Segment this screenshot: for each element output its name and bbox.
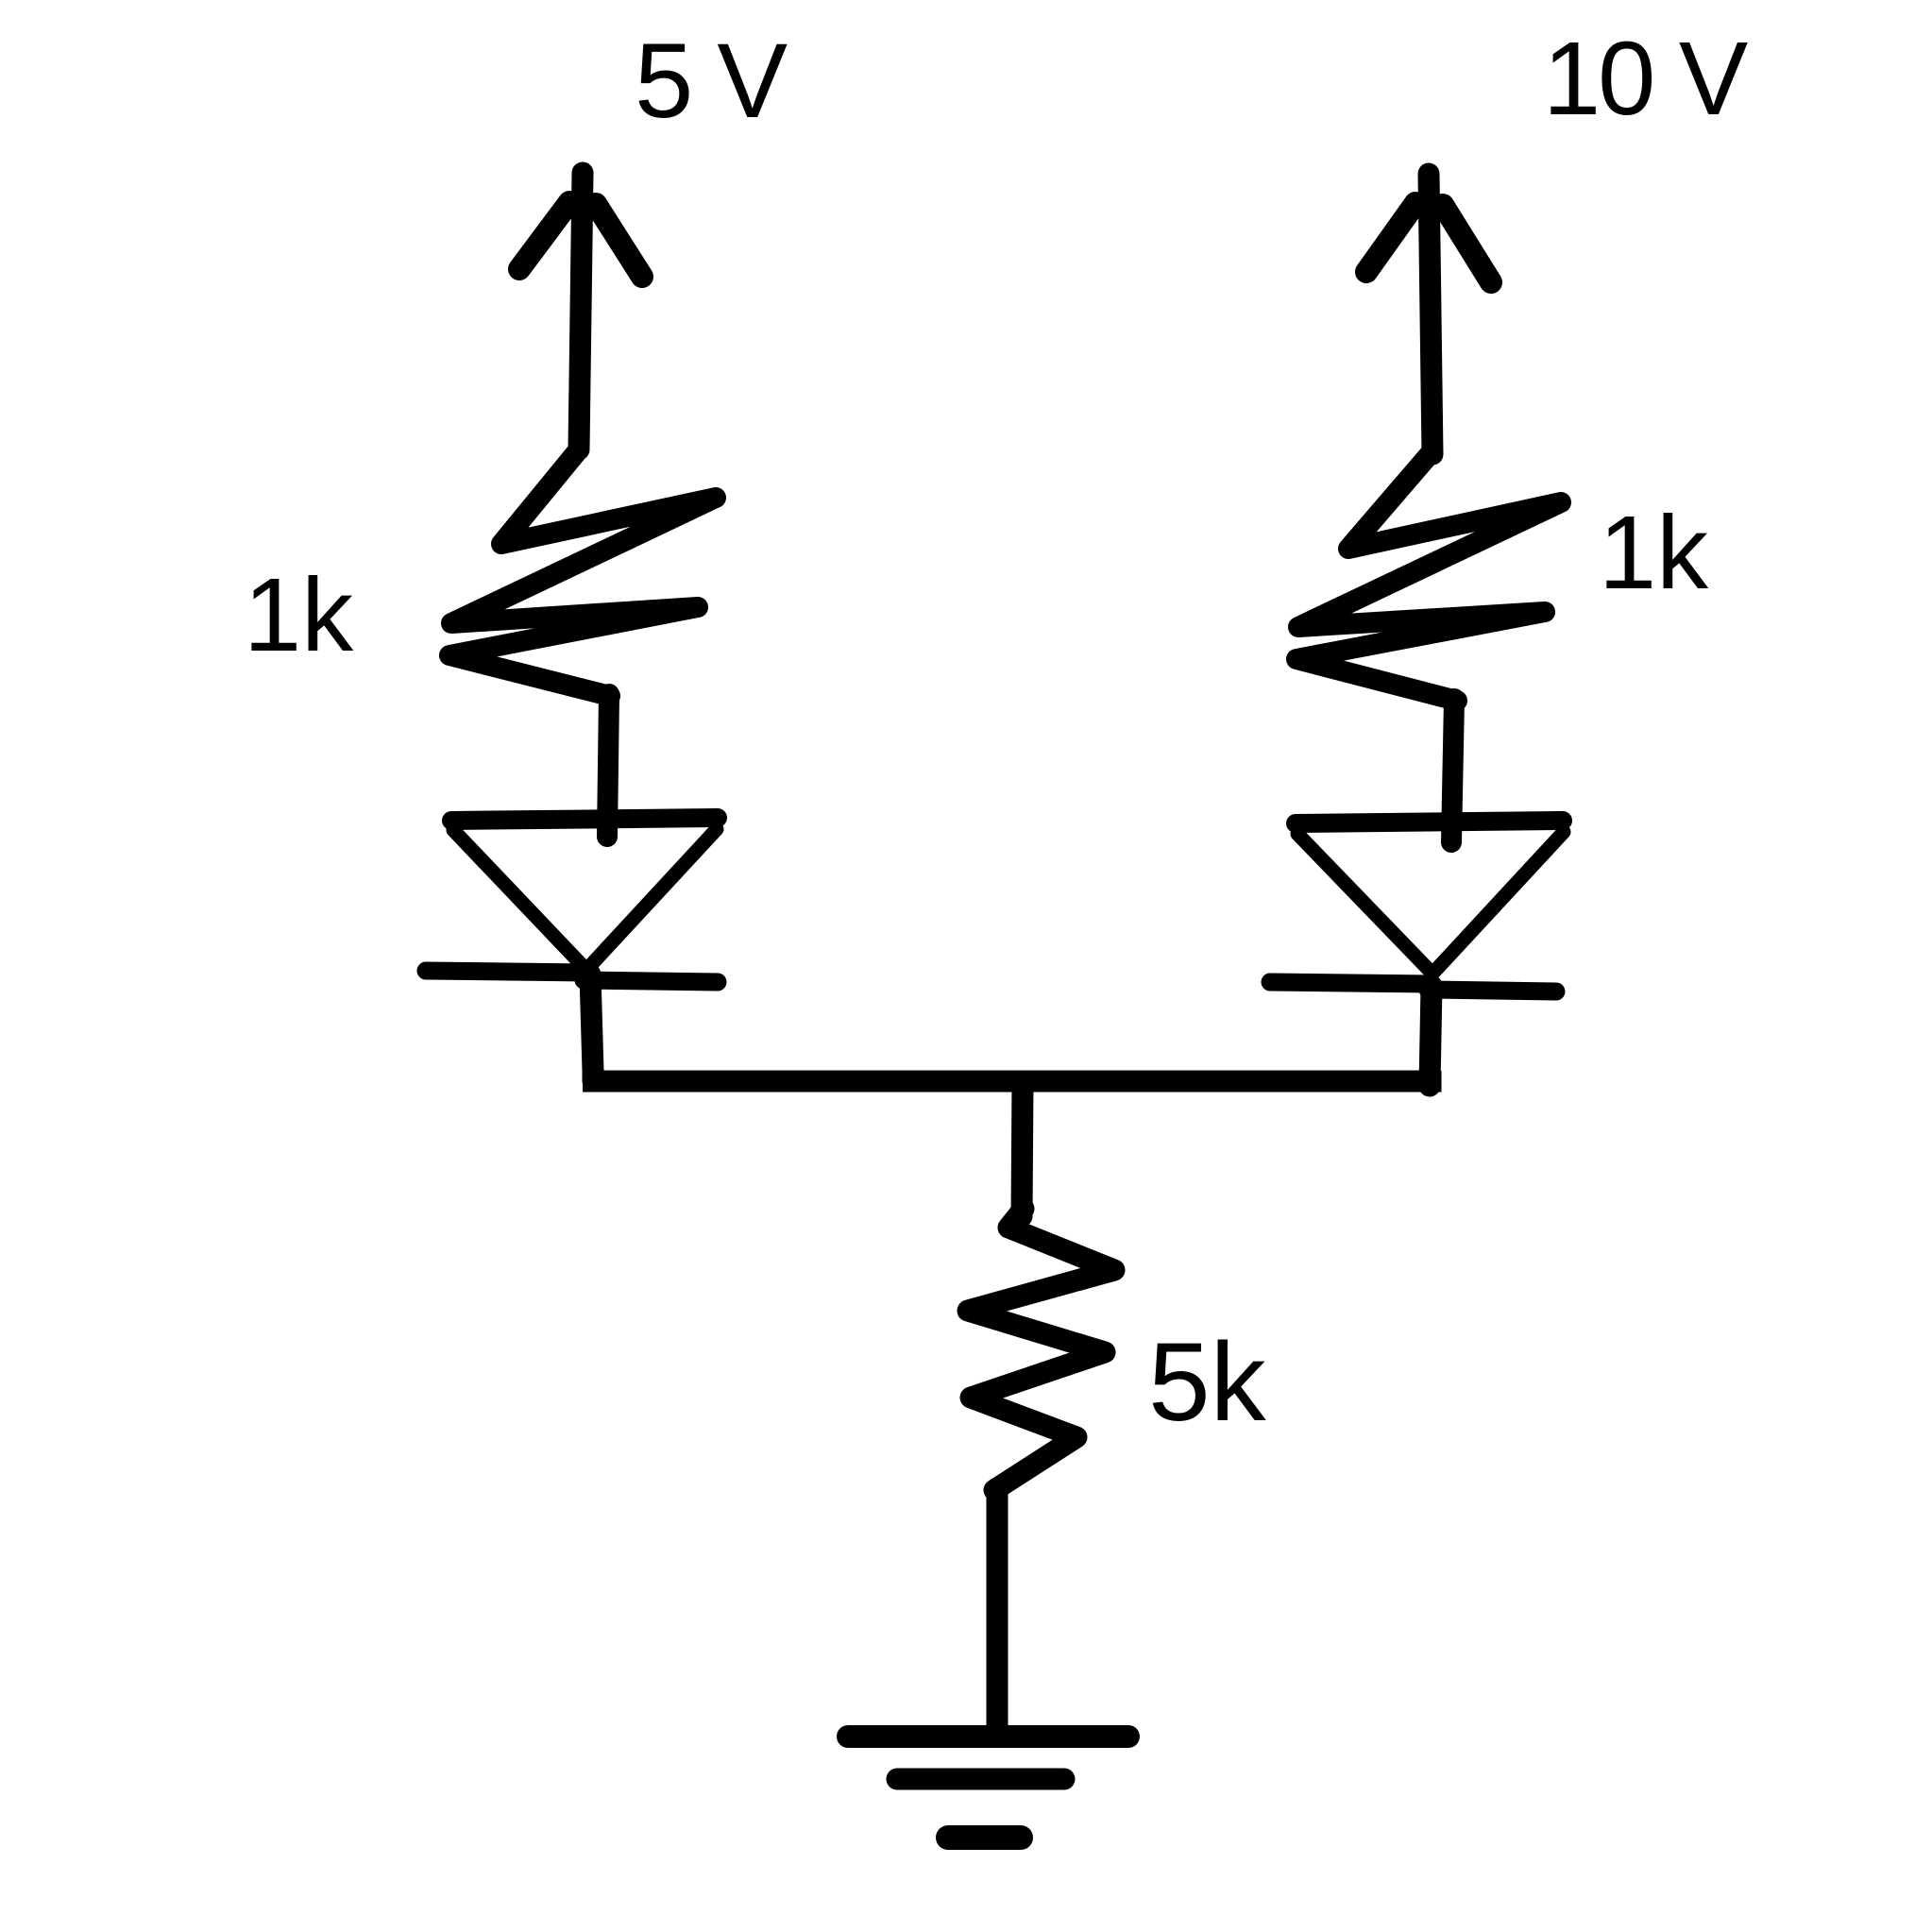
svg-text:5 V: 5 V (635, 22, 788, 140)
resistor R2 1k (right) zigzag (1296, 454, 1561, 701)
power supply arrow 5V: shaft (579, 173, 583, 449)
power supply arrow 10V: left wing (1366, 203, 1415, 272)
ground: middle bar (897, 1769, 1064, 1790)
wire R1 to D1 (607, 694, 609, 837)
diode D1: cathode bar left segment (426, 971, 587, 973)
wire bus to R3 (middle drop) (1022, 1081, 1023, 1216)
power supply arrow 5V: right wing (596, 204, 642, 277)
power supply arrow 5V: left wing (519, 202, 569, 269)
wire R3 to ground (987, 1488, 1008, 1734)
diode D1 (left): anode bar (451, 818, 718, 821)
diode D1: triangle left edge (453, 830, 585, 969)
svg-text:1k: 1k (1599, 495, 1709, 611)
power supply arrow 10V: right wing (1443, 205, 1491, 282)
diode D2 (right): anode bar (1296, 821, 1563, 823)
diode D2: cathode bar left segment (1270, 982, 1432, 984)
svg-text:1k: 1k (244, 557, 354, 673)
diode D1: cathode bar right segment (584, 980, 718, 982)
diode D2: triangle right edge (1433, 832, 1564, 973)
resistor R1 1k (left) zigzag (449, 449, 716, 696)
ground: top bar (848, 1725, 1128, 1748)
node bus wire (horizontal) (583, 1071, 1431, 1081)
diode D2: cathode bar right segment (1428, 990, 1556, 991)
power supply arrow 10V: shaft (1429, 174, 1432, 454)
wire D1 to node bus (590, 974, 593, 1081)
ground: bottom bar (948, 1825, 1021, 1850)
diode D1: triangle right edge (587, 829, 717, 969)
resistor R3 5k zigzag (968, 1209, 1114, 1490)
svg-text:5k: 5k (1148, 1320, 1267, 1445)
svg-text:10 V: 10 V (1543, 21, 1748, 137)
wire D2 to node bus (1430, 986, 1432, 1086)
wire R2 to D2 (1451, 699, 1454, 842)
diode D2: triangle left edge (1297, 834, 1432, 973)
